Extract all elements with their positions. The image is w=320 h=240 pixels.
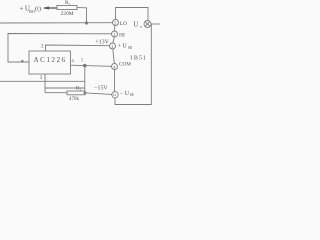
svg-text:5: 5 <box>114 20 116 25</box>
svg-text:1B51: 1B51 <box>130 56 147 62</box>
svg-text:HI: HI <box>119 33 125 39</box>
svg-text:COM: COM <box>119 63 131 68</box>
svg-text:− U: − U <box>120 91 130 97</box>
svg-text:5: 5 <box>81 58 83 63</box>
svg-text:SE: SE <box>128 46 133 50</box>
svg-text:AC1226: AC1226 <box>34 56 67 64</box>
svg-text:U: U <box>133 20 138 28</box>
svg-text:(t): (t) <box>35 5 41 12</box>
svg-text:*: * <box>21 59 25 67</box>
svg-text:14: 14 <box>113 93 117 97</box>
svg-text:4: 4 <box>113 64 115 69</box>
svg-text:1: 1 <box>69 2 71 6</box>
svg-text:+13V: +13V <box>95 40 109 46</box>
svg-text:−15V: −15V <box>94 86 108 92</box>
svg-text:+ U: + U <box>118 44 128 50</box>
svg-text:BO: BO <box>29 9 35 14</box>
svg-text:LO: LO <box>120 21 127 27</box>
svg-text:470k: 470k <box>69 97 80 102</box>
svg-text:o: o <box>140 24 142 29</box>
svg-text:220M: 220M <box>61 11 74 17</box>
svg-text:1: 1 <box>114 32 116 37</box>
svg-text:2: 2 <box>111 44 113 49</box>
